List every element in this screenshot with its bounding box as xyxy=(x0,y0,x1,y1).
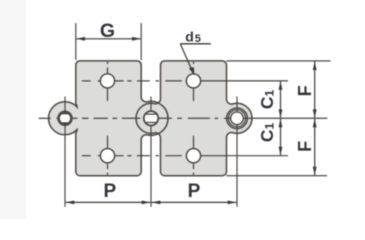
bottom holes centerline xyxy=(82,155,91,157)
dim G line xyxy=(77,38,141,40)
svg-text:P: P xyxy=(188,181,201,202)
F extension line top xyxy=(227,60,331,62)
dim G extension line left xyxy=(75,23,77,60)
bolt hole plate1 top xyxy=(100,74,114,88)
hole vertical crosshair x=107.5 top xyxy=(107,62,109,64)
bolt hole plate2 bottom xyxy=(186,149,200,163)
dim P2 line xyxy=(152,201,237,203)
svg-text:5: 5 xyxy=(195,33,201,45)
dim F lower line xyxy=(314,119,316,175)
pin 2 xyxy=(144,111,158,125)
dim F upper line xyxy=(314,62,316,118)
left page margin strip xyxy=(0,0,26,219)
hole vertical crosshair x=193.5 top xyxy=(193,62,195,64)
pin 1 extension line xyxy=(64,97,66,207)
dim P1 line xyxy=(66,201,151,203)
pin 2 extension line xyxy=(150,97,152,207)
pin 3 extension line xyxy=(236,97,238,207)
dim G extension line right xyxy=(140,23,142,60)
top holes centerline xyxy=(82,80,91,82)
dim C1 lower line xyxy=(280,119,282,155)
pin 3 (bushing/roller) xyxy=(227,108,248,129)
hole vertical crosshair x=193.5 bottom xyxy=(193,136,195,170)
d5 leader arrow xyxy=(189,67,194,76)
chain centerline xyxy=(39,117,51,119)
bolt hole plate1 bottom xyxy=(100,149,114,163)
d5 underline xyxy=(180,43,211,45)
attachment plate 1 (outline) xyxy=(49,61,168,176)
svg-text:d: d xyxy=(185,28,194,44)
F extension line bottom xyxy=(227,175,328,177)
dim C1 upper line xyxy=(280,82,282,118)
svg-text:G: G xyxy=(100,20,115,42)
attachment plate 2 (fill) xyxy=(136,61,252,176)
svg-text:F: F xyxy=(295,141,315,152)
bolt hole plate2 top xyxy=(186,74,200,88)
attachment plate 2 (outline) xyxy=(136,61,252,176)
attachment plate 1 (fill) xyxy=(49,61,168,176)
svg-text:C1: C1 xyxy=(257,90,277,110)
svg-text:P: P xyxy=(103,181,116,202)
svg-text:F: F xyxy=(295,85,315,96)
svg-text:C1: C1 xyxy=(257,123,277,143)
hole vertical crosshair x=107.5 bottom xyxy=(107,136,109,170)
d5 leader line xyxy=(180,44,192,71)
pin 1 xyxy=(58,111,72,125)
